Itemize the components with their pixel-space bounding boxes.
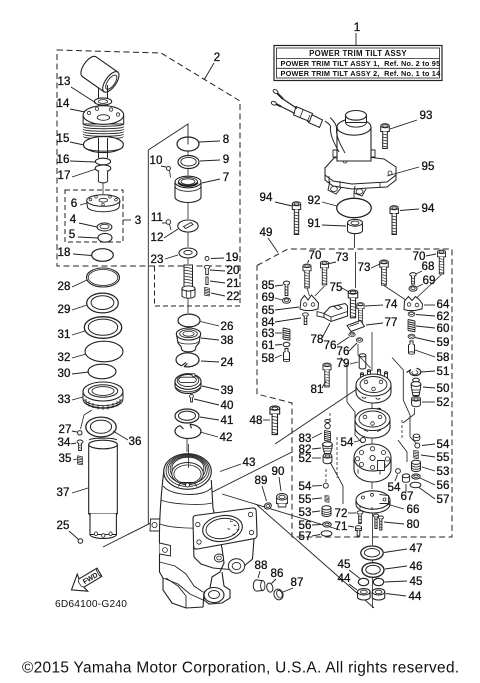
label 23 [150,253,178,266]
label 56R [420,478,450,492]
ring 5 [98,233,112,242]
svg-text:57: 57 [436,493,449,506]
svg-text:30: 30 [57,367,70,380]
pin 54a [361,438,366,443]
pin 10 [166,166,170,170]
oring 28 [87,268,120,287]
cylinder 43 threaded mouth [163,454,212,495]
label 48 [249,414,270,427]
oring 15 [83,137,123,153]
link 70L-65 [307,288,310,296]
label 81 [310,381,326,396]
spring 63 [283,328,290,340]
wires [271,89,345,153]
dashed axis bits [326,413,402,482]
screw 40 [190,394,194,402]
svg-text:55: 55 [436,451,449,464]
svg-text:80: 80 [406,518,419,531]
svg-text:52: 52 [436,396,449,409]
svg-text:41: 41 [220,414,233,427]
label 57R [419,488,450,507]
label 4 [70,213,97,227]
bolt 23 below [182,259,195,299]
flange plate on 43 [193,508,257,570]
svg-text:6D64100-G240: 6D64100-G240 [55,599,127,610]
svg-text:69: 69 [261,291,274,304]
nut 76b [356,338,362,342]
nut 76a [349,332,355,336]
dashed box 3 (parts 4,5,6) [65,190,123,242]
label 19 [211,251,239,264]
ring 61 [283,342,290,346]
svg-text:5: 5 [69,228,76,241]
oring 86 [266,582,274,592]
oring 57R [410,482,421,487]
svg-text:45: 45 [409,575,422,588]
label 18 [57,246,91,259]
ring 16 [95,158,110,165]
pin 21 [206,277,208,285]
label 63 [261,327,282,340]
label 61 [261,339,282,352]
svg-text:29: 29 [57,303,70,316]
label 34 [57,436,76,449]
label 54c [298,480,322,493]
svg-text:77: 77 [384,316,397,329]
label 71 [334,520,354,533]
label 64 [424,298,450,311]
flange 14 [83,106,124,139]
label 51 [421,365,450,378]
label 86 [270,567,283,584]
diagonal D3 manifold link [222,494,340,530]
svg-text:7: 7 [223,171,230,184]
label 22 [211,290,240,303]
svg-text:78: 78 [310,333,323,346]
svg-text:76: 76 [323,339,336,352]
label 78 [310,323,330,346]
label 30 [57,367,89,380]
label 73C [357,261,380,274]
label 2 [204,51,220,80]
label 41 [200,414,234,427]
label 36 [113,431,142,448]
svg-text:73: 73 [357,261,370,274]
bushing 7 [175,176,201,202]
cup 52R [412,397,421,407]
bracket 65 [300,295,319,311]
label 20 [210,264,240,277]
label 16 [56,153,95,166]
screw 85 [283,281,289,295]
screw 68 [410,273,416,284]
diagonal D2 cylinder axis link [103,452,292,547]
label 62 [416,310,450,323]
svg-text:49: 49 [259,226,272,239]
rod upper [99,85,108,112]
label 94R [400,202,435,215]
label 5 [69,228,98,241]
label 93 [390,109,433,129]
svg-text:47: 47 [409,542,422,555]
plug 88 [253,580,265,591]
svg-text:POWER TRIM TILT ASSY 2, Ref.: POWER TRIM TILT ASSY 2, Ref. No. 1 to 14 [281,69,442,78]
oring 30 [88,364,116,379]
svg-text:57: 57 [298,530,311,543]
svg-text:74: 74 [384,298,398,311]
rings 53L [322,506,331,517]
pin 11 [166,220,171,225]
link 33-27 [81,410,93,429]
oring 26 [178,314,200,327]
label 53L [298,506,320,519]
dashed box 2 (left assembly group) [57,50,240,266]
svg-text:11: 11 [151,211,163,224]
svg-text:61: 61 [261,339,274,352]
svg-text:24: 24 [220,356,234,369]
svg-text:50: 50 [436,382,449,395]
pin 54c [323,483,328,488]
bolt 94L [292,202,300,235]
label 49 [259,226,278,253]
svg-text:10: 10 [149,154,162,167]
svg-text:95: 95 [421,160,434,173]
diagonal D5 screw48 to pump [275,387,360,444]
svg-text:55: 55 [298,493,311,506]
ring 13 [94,98,111,105]
svg-text:94: 94 [259,191,273,204]
svg-text:44: 44 [408,590,422,603]
spring 55R [414,450,419,459]
bolt 93 [381,124,390,149]
svg-text:59: 59 [436,336,449,349]
label 94L [259,191,292,206]
svg-text:51: 51 [436,365,449,378]
cylinder 37 [89,438,118,538]
bolt 94R [390,206,398,235]
svg-text:68: 68 [421,260,434,273]
staircase lower right [398,440,407,462]
cup 52L [323,454,332,464]
bolt 73L [320,261,328,285]
label 75 [329,281,349,294]
washer 41 [175,409,199,423]
label 24 [201,356,234,369]
label 53R [422,465,450,478]
pin 79 [359,354,366,369]
axis 23box-26 [187,298,189,314]
plunger 58L [284,349,290,362]
rings 53R [412,460,421,471]
block 78 [317,304,348,322]
svg-text:26: 26 [220,320,233,333]
label 44L [337,572,357,590]
svg-text:28: 28 [57,280,70,293]
svg-text:44: 44 [337,572,351,585]
washer 47 [361,546,383,560]
plunger 58R [409,341,415,354]
boss 88 hole [228,559,244,573]
staircase right [392,358,418,445]
spring 60 [408,320,415,332]
label 76a [323,337,349,352]
nut 91 [348,219,363,233]
svg-text:71: 71 [334,520,347,533]
label 3 [123,214,141,227]
label 67 [400,484,413,503]
bolt 81 [323,363,331,387]
label 50 [423,382,450,395]
label 21 [210,277,240,290]
svg-text:9: 9 [223,153,230,166]
label 31 [57,328,85,341]
svg-text:40: 40 [220,399,233,412]
seal 38 [176,328,200,352]
axis 12-23 [187,233,189,248]
svg-text:31: 31 [57,328,70,341]
label 7 [202,171,229,184]
dashed box 49 (pump unit group) [257,249,452,537]
label 70R [412,250,436,263]
svg-text:21: 21 [226,277,239,290]
svg-text:19: 19 [225,251,238,264]
svg-text:88: 88 [254,559,267,572]
cap 87 [272,588,284,601]
label 26 [201,320,234,333]
washer 46 [362,563,384,578]
label 84 [261,316,301,329]
axis 77-pump [371,332,373,444]
label 89 [254,474,267,501]
svg-text:66: 66 [406,503,419,516]
bolt 73C [380,260,389,285]
label 87 [283,576,304,592]
svg-text:36: 36 [128,435,141,448]
svg-text:56: 56 [436,479,449,492]
svg-text:58: 58 [436,351,449,364]
svg-text:94: 94 [421,202,435,215]
label 14 [56,97,85,112]
staircase lower left [330,462,343,504]
svg-text:6: 6 [71,197,78,210]
diagonal link to middle stack [148,124,188,150]
link plate 77 [347,321,365,332]
screw 20 [204,265,210,274]
pin 19 [205,257,209,261]
pump plate 2 [355,408,390,438]
piston 33 [83,382,123,410]
svg-text:69: 69 [422,274,435,287]
link 70R-64 [417,275,442,298]
spring 83b [324,430,330,441]
label 55L [298,493,322,506]
label 35 [58,452,77,465]
nut 69L [283,298,291,304]
cylinder 43 body [150,471,230,608]
svg-text:POWER TRIM TILT ASSY 1, Ref.: POWER TRIM TILT ASSY 1, Ref. No. 2 to 95 [281,59,441,68]
label 38 [201,334,234,347]
svg-text:72: 72 [334,507,347,520]
svg-text:52: 52 [298,452,311,465]
svg-text:54: 54 [387,481,401,494]
label 44R [386,590,422,603]
svg-text:38: 38 [220,334,233,347]
svg-text:53: 53 [436,465,449,478]
valve 82 [323,442,333,454]
bolt 75 [348,290,357,318]
svg-text:86: 86 [270,567,283,580]
axis 8-9-7 [187,152,189,220]
label 29 [57,303,87,316]
svg-text:90: 90 [271,465,284,478]
bracket 64 [404,297,423,311]
spring 22 [204,287,209,296]
nut 62 [408,312,415,317]
ball 83 [325,420,330,429]
end plate 66 [356,491,390,513]
svg-text:©2015 Yamaha Motor Corporation: ©2015 Yamaha Motor Corporation, U.S.A. A… [22,660,459,677]
spring 55L [325,495,329,502]
long axis line D1 [147,150,149,524]
link 76-pump [358,344,371,368]
plug 90 [277,494,288,508]
label 27 [58,423,77,436]
FWD arrow [66,564,105,598]
label 59 [415,336,450,349]
label 82 [298,443,321,456]
svg-text:12: 12 [150,231,163,244]
label 17 [57,169,96,182]
svg-text:39: 39 [220,384,233,397]
svg-text:42: 42 [219,431,232,444]
label 58R [415,350,450,364]
label 83 [298,432,322,445]
label 72 [334,507,356,520]
label 68 [416,260,435,274]
label 11 [151,211,166,224]
svg-text:92: 92 [307,194,320,207]
svg-text:33: 33 [57,393,70,406]
svg-text:73: 73 [335,251,348,264]
svg-text:43: 43 [242,456,255,469]
label 57L [298,530,320,543]
seal 31 [84,317,121,339]
label 54a [340,436,360,449]
svg-text:17: 17 [57,169,70,182]
svg-text:79: 79 [336,357,349,370]
link 52R-54b [403,408,415,423]
rod mid [99,138,108,158]
label 73L [327,251,349,264]
staircase left [341,358,362,444]
oring 32 [85,341,123,362]
svg-text:48: 48 [249,414,262,427]
oring 89 [263,502,272,510]
svg-text:93: 93 [419,109,432,122]
svg-text:13: 13 [57,75,70,88]
label 91 [307,217,346,230]
label 92 [307,194,337,207]
svg-text:91: 91 [307,217,320,230]
oring 8 [177,137,199,151]
pin 54b [415,443,420,448]
label 76b [336,343,357,358]
svg-text:60: 60 [436,322,449,335]
label 58L [261,352,282,365]
label 90 [271,465,284,491]
screw 84 [303,313,309,325]
piston head 39 [175,374,201,394]
label 33 [57,393,83,406]
label 85 [261,279,283,292]
label 8 [199,133,229,146]
label 9 [200,153,229,166]
bolt 74 [357,303,364,324]
label 1 [354,21,361,45]
axis into mouth [188,444,190,468]
label 39 [202,384,234,397]
svg-text:81: 81 [310,383,323,396]
seal 29 [87,293,119,313]
cap 13 tube [78,54,122,95]
label 80 [384,518,420,531]
svg-text:35: 35 [58,452,71,465]
label 79 [336,357,358,370]
svg-text:4: 4 [70,213,77,226]
ring 56R [412,474,420,479]
label 77 [366,316,398,329]
svg-text:18: 18 [57,246,70,259]
seal 9 [178,156,199,169]
spring 35 [77,456,82,465]
screw 72 [357,511,363,524]
label 37 [56,486,88,499]
dashed box 23-22 group [155,267,241,307]
label 69L [261,291,282,304]
motor 95 base plate [325,155,396,196]
label 66 [387,503,420,516]
svg-text:89: 89 [254,474,267,487]
axis [102,183,104,194]
label 10 [149,154,166,167]
svg-text:58: 58 [261,352,274,365]
link 73L-65 [315,286,325,296]
label 45R [385,575,423,588]
svg-text:25: 25 [56,519,69,532]
nut 44a [358,589,371,600]
svg-text:70: 70 [308,249,321,262]
oring 92 [337,198,372,217]
svg-text:37: 37 [56,486,69,499]
label 56L [298,519,321,532]
svg-text:2: 2 [214,51,221,64]
snapring 42 [175,424,201,438]
washer 23 [179,248,197,258]
label 43 [220,456,256,472]
svg-text:22: 22 [226,290,239,303]
svg-text:23: 23 [150,253,163,266]
bolt 70L [303,264,311,288]
flange 6 [87,195,120,212]
label 88 [254,559,267,578]
svg-text:34: 34 [57,436,71,449]
svg-text:20: 20 [226,264,239,277]
nut 44b [372,589,385,600]
valve 50 [411,378,421,395]
svg-text:54: 54 [298,480,312,493]
label 46 [385,560,423,573]
seat above 54b [413,434,420,441]
